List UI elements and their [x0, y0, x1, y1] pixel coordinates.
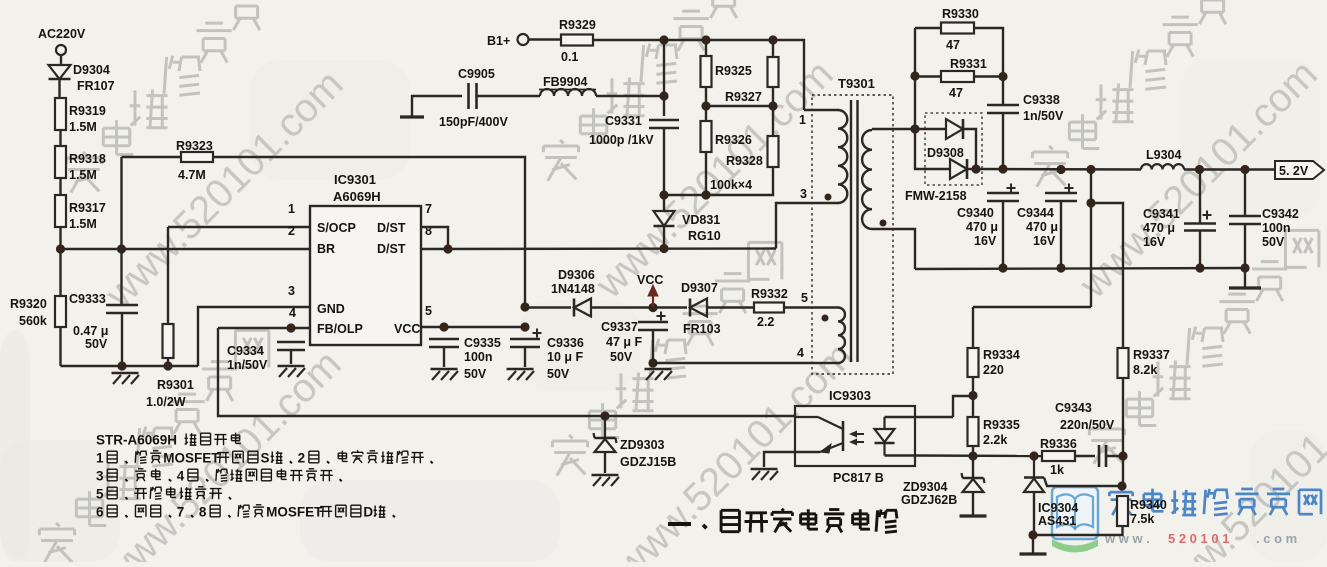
svg-text:16V: 16V	[1143, 235, 1166, 249]
svg-text:R9329: R9329	[559, 18, 596, 32]
svg-text:FR103: FR103	[683, 322, 721, 336]
wire	[1032, 526, 1123, 535]
watermark 4	[587, 52, 842, 307]
capacitor C9331	[649, 119, 679, 122]
node junction	[1117, 481, 1126, 490]
svg-text:8.2k: 8.2k	[1133, 363, 1157, 377]
wire	[972, 377, 974, 417]
wire	[1184, 168, 1275, 170]
node junction	[659, 190, 668, 199]
svg-text:BR: BR	[317, 242, 335, 256]
wire xfrm pin1	[804, 109, 839, 111]
svg-text:FB/OLP: FB/OLP	[317, 322, 363, 336]
svg-text:B1+: B1+	[487, 34, 510, 48]
capacitor C9342	[1229, 215, 1261, 218]
svg-text:VD831: VD831	[682, 213, 720, 227]
wire VCC feed	[525, 306, 571, 308]
wire	[59, 227, 61, 296]
site watermark logo	[1052, 487, 1098, 539]
svg-text:IC9304: IC9304	[1038, 501, 1078, 515]
wire GND pin3	[198, 307, 310, 366]
svg-text:C9334: C9334	[227, 344, 264, 358]
T9301 secondary winding	[862, 130, 872, 229]
wire	[914, 28, 916, 129]
capacitor C9336	[510, 338, 540, 341]
svg-text:1.0/2W: 1.0/2W	[146, 395, 186, 409]
diode D9307	[689, 299, 692, 317]
svg-text:R9331: R9331	[950, 57, 987, 71]
capacitor C9343	[1098, 445, 1101, 467]
wire	[764, 452, 795, 467]
svg-text:1.5M: 1.5M	[69, 168, 97, 182]
wire ref	[1044, 478, 1122, 487]
ground	[751, 468, 778, 471]
svg-text:C9331: C9331	[605, 114, 642, 128]
watermark 5	[1049, 146, 1053, 150]
svg-text:R9335: R9335	[983, 418, 1020, 432]
wire	[885, 454, 916, 456]
node junction	[1086, 165, 1095, 174]
wire D/ST pin7 stub	[421, 227, 448, 249]
wire	[707, 306, 754, 308]
node junction	[1195, 263, 1204, 272]
svg-text:w w w .: w w w .	[1104, 531, 1150, 546]
capacitor C9344	[1045, 192, 1077, 195]
IC U IC9301 A6069H	[310, 206, 421, 345]
svg-text:1000p /1kV: 1000p /1kV	[589, 133, 654, 147]
node junction	[998, 164, 1007, 173]
wire sec return rail	[915, 268, 1245, 269]
svg-text:R9301: R9301	[157, 378, 194, 392]
svg-text:4.7M: 4.7M	[178, 168, 206, 182]
svg-text:VCC: VCC	[394, 322, 420, 336]
svg-text:C9340: C9340	[957, 206, 994, 220]
svg-text:L9304: L9304	[1146, 148, 1181, 162]
output flag 5.2V	[1275, 161, 1324, 179]
svg-text:5: 5	[425, 304, 432, 318]
wire	[973, 306, 1091, 308]
svg-text:D/ST: D/ST	[377, 221, 406, 235]
watermark 10	[1145, 364, 1327, 567]
svg-text:AC220V: AC220V	[38, 27, 86, 41]
node junction	[163, 361, 172, 370]
node junction	[439, 322, 448, 331]
wire	[663, 40, 665, 116]
svg-text:2.2: 2.2	[757, 315, 774, 329]
svg-text:8: 8	[199, 504, 207, 519]
wire	[596, 95, 664, 97]
wire drain net	[421, 247, 776, 250]
node junction	[1056, 263, 1065, 272]
wire	[477, 95, 541, 97]
svg-text:R9326: R9326	[715, 133, 752, 147]
resistor R9318	[55, 146, 66, 178]
wire	[1244, 170, 1246, 217]
watermark 6	[1071, 52, 1326, 307]
ground	[278, 365, 305, 368]
wire	[1244, 268, 1246, 287]
svg-text:47 μ F: 47 μ F	[606, 335, 642, 349]
svg-text:R9330: R9330	[942, 7, 979, 21]
svg-text:ZD9303: ZD9303	[620, 438, 665, 452]
wire	[290, 350, 292, 364]
wire	[664, 167, 773, 195]
node junction	[1240, 165, 1249, 174]
site watermark text	[1120, 488, 1122, 490]
node VCC	[648, 303, 657, 312]
resistor R9334	[968, 348, 979, 377]
wire	[772, 87, 774, 136]
svg-text:6: 6	[96, 504, 104, 519]
node junction	[117, 244, 126, 253]
node junction	[520, 302, 529, 311]
capacitor C9337	[638, 321, 668, 324]
svg-text:C9338: C9338	[1023, 93, 1060, 107]
wire	[1075, 455, 1095, 457]
svg-text:PC817 B: PC817 B	[833, 471, 884, 485]
svg-text:IC9301: IC9301	[334, 172, 376, 187]
watermark 2	[97, 62, 352, 317]
svg-text:S: S	[260, 450, 269, 465]
svg-text:C9344: C9344	[1017, 206, 1054, 220]
svg-text:D: D	[363, 504, 373, 519]
wire BR net	[61, 248, 311, 250]
resistor R9325	[705, 40, 707, 56]
svg-text:R9340: R9340	[1130, 498, 1167, 512]
D9308 diode a	[962, 119, 965, 139]
capacitor C9341	[1184, 222, 1216, 225]
wire B1+ rail	[593, 40, 804, 110]
resistor R9337	[1118, 348, 1129, 378]
svg-text:IC9303: IC9303	[829, 388, 871, 403]
node junction	[998, 72, 1007, 81]
svg-text:470 μ: 470 μ	[1143, 221, 1175, 235]
svg-text:A6069H: A6069H	[333, 189, 381, 204]
svg-text:470 μ: 470 μ	[1026, 220, 1058, 234]
wire	[1091, 203, 1123, 348]
svg-text:R9327: R9327	[725, 90, 762, 104]
wire	[122, 156, 182, 158]
T9301 primary winding 1-3	[838, 110, 847, 203]
capacitor C9333	[106, 304, 138, 307]
watermark 1	[83, 152, 87, 156]
watermark 11	[1106, 423, 1110, 427]
svg-text:7.5k: 7.5k	[1130, 512, 1154, 526]
svg-text:150pF/400V: 150pF/400V	[439, 115, 508, 129]
wire	[974, 28, 1003, 105]
watermark 8	[569, 435, 573, 439]
resistor R9326	[701, 121, 712, 152]
wire	[663, 128, 665, 195]
wire startup net	[213, 157, 525, 307]
wire	[167, 227, 169, 324]
zener ZD9304	[963, 477, 984, 480]
svg-text:3: 3	[96, 468, 104, 483]
ground	[431, 368, 458, 371]
svg-text:GND: GND	[317, 302, 345, 316]
ground	[1229, 286, 1261, 289]
node junction	[1240, 263, 1249, 272]
resistor R9330	[915, 27, 941, 29]
phasing dot	[825, 194, 832, 201]
wire	[915, 75, 941, 77]
opto LED	[883, 417, 885, 429]
diode VD831	[654, 211, 675, 226]
node junction	[286, 323, 295, 332]
wire sec top	[872, 128, 915, 130]
wire	[963, 129, 976, 169]
svg-text:MOSFET: MOSFET	[163, 450, 220, 465]
wire	[524, 347, 526, 367]
terminal plate C9905	[400, 115, 424, 118]
wire	[705, 87, 707, 121]
wire	[1199, 170, 1201, 225]
resistor R9327	[772, 40, 774, 57]
wire	[1002, 113, 1004, 169]
svg-text:3: 3	[288, 284, 295, 298]
wire	[59, 327, 61, 366]
svg-text:16V: 16V	[1033, 234, 1056, 248]
svg-text:T9301: T9301	[838, 76, 875, 91]
wire output rail	[976, 168, 1141, 171]
svg-text:D9307: D9307	[681, 281, 718, 295]
svg-text:10 μ F: 10 μ F	[547, 350, 583, 364]
svg-text:D9306: D9306	[558, 268, 595, 282]
node junction	[659, 35, 668, 44]
node junction	[520, 322, 529, 331]
svg-text:C9905: C9905	[458, 67, 495, 81]
svg-text:50V: 50V	[85, 337, 108, 351]
svg-text:50V: 50V	[610, 350, 633, 364]
svg-text:FMW-2158: FMW-2158	[905, 189, 967, 203]
node junction	[1056, 165, 1065, 174]
svg-text:RG10: RG10	[688, 229, 721, 243]
wire	[60, 55, 62, 65]
wire	[652, 330, 654, 363]
dual diode D9308 FMW-2158	[925, 113, 982, 185]
svg-text:560k: 560k	[19, 314, 47, 328]
svg-text:AS431: AS431	[1038, 514, 1076, 528]
resistor R9319	[55, 98, 66, 130]
svg-text:220: 220	[983, 363, 1004, 377]
ground	[1020, 552, 1047, 555]
svg-text:1N4148: 1N4148	[551, 282, 595, 296]
wire	[1060, 201, 1062, 268]
svg-text:R9320: R9320	[10, 297, 47, 311]
ground	[592, 474, 619, 477]
node junction	[701, 101, 710, 110]
wire	[1033, 492, 1035, 535]
node junction	[1118, 451, 1127, 460]
svg-text:C9341: C9341	[1143, 207, 1180, 221]
node junction	[659, 244, 668, 253]
capacitor C9340	[987, 192, 1019, 195]
svg-text:FB9904: FB9904	[543, 75, 588, 89]
opto transistor	[842, 421, 845, 451]
wire VCC pin5	[421, 326, 525, 328]
resistor R9335	[968, 417, 979, 446]
wire sense	[1090, 170, 1092, 308]
wire	[872, 229, 915, 269]
node junction	[1086, 198, 1095, 207]
ground	[112, 372, 139, 375]
svg-text:16V: 16V	[974, 234, 997, 248]
ground	[960, 514, 987, 517]
svg-text:R9337: R9337	[1133, 348, 1170, 362]
svg-text:1n/50V: 1n/50V	[1023, 109, 1064, 123]
svg-text:VCC: VCC	[637, 273, 663, 287]
title sub switching power supply circuit	[668, 522, 691, 526]
svg-text:4: 4	[797, 346, 804, 360]
wire	[591, 306, 687, 308]
wire emitter	[795, 451, 820, 453]
wire	[412, 96, 462, 116]
svg-text:50V: 50V	[1262, 235, 1285, 249]
svg-text:C9336: C9336	[547, 336, 584, 350]
wire xfrm pin5	[784, 306, 839, 308]
svg-text:100n: 100n	[1262, 221, 1291, 235]
svg-text:R9328: R9328	[726, 154, 763, 168]
node junction	[768, 101, 777, 110]
svg-text:1k: 1k	[1050, 463, 1064, 477]
node junction	[968, 391, 977, 400]
wire	[1002, 201, 1004, 268]
watermark 9	[607, 334, 862, 567]
node junction	[659, 91, 668, 100]
resistor R9328	[768, 136, 779, 167]
svg-text:C9335: C9335	[464, 336, 501, 350]
watermark 7b	[95, 342, 350, 567]
resistor R9320	[55, 296, 66, 327]
svg-text:R9317: R9317	[69, 201, 106, 215]
scan background texture	[0, 440, 120, 562]
svg-text:220n/50V: 220n/50V	[1060, 418, 1115, 432]
svg-text:470 μ: 470 μ	[966, 220, 998, 234]
wire drain to xfrm	[776, 203, 839, 249]
VCC arrow symbol	[652, 294, 654, 307]
zener ZD9303	[604, 416, 606, 437]
wire aux return	[653, 362, 839, 364]
watermark 3	[560, 140, 564, 144]
node junction	[1195, 165, 1204, 174]
wire	[972, 492, 974, 515]
svg-text:R9318: R9318	[69, 152, 106, 166]
svg-text:C9343: C9343	[1055, 401, 1092, 415]
wire	[915, 129, 950, 169]
resistor R9301	[163, 324, 174, 358]
svg-text:GDZJ62B: GDZJ62B	[901, 493, 957, 507]
svg-text:R9319: R9319	[69, 104, 106, 118]
svg-text:7: 7	[425, 202, 432, 216]
svg-text:5: 5	[96, 486, 104, 501]
svg-text:1.5M: 1.5M	[69, 120, 97, 134]
T9301 core	[850, 100, 852, 362]
wire	[1032, 535, 1034, 553]
svg-text:100k×4: 100k×4	[710, 178, 752, 192]
wire S/OCP pin1	[168, 226, 310, 228]
resistor R9340	[1117, 496, 1128, 526]
svg-text:R9334: R9334	[983, 348, 1020, 362]
wire	[604, 452, 606, 473]
svg-text:1: 1	[799, 113, 806, 127]
node junction	[768, 35, 777, 44]
svg-text:R9336: R9336	[1040, 437, 1077, 451]
wire	[885, 416, 916, 418]
svg-text:D/ST: D/ST	[377, 242, 406, 256]
resistor R9317	[55, 195, 66, 227]
wire	[120, 157, 122, 305]
node junction	[971, 164, 980, 173]
svg-text:D9308: D9308	[927, 146, 964, 160]
svg-text:2: 2	[288, 224, 295, 238]
wire opto feed	[953, 396, 973, 417]
node junction	[1029, 451, 1038, 460]
node junction	[910, 71, 919, 80]
svg-text:5 2 0 1 0 1: 5 2 0 1 0 1	[1168, 531, 1229, 546]
T9301 aux winding 5-4	[838, 308, 845, 364]
svg-text:. c o m: . c o m	[1256, 531, 1297, 546]
svg-text:47: 47	[949, 86, 963, 100]
diode D9304	[49, 65, 71, 79]
watermark 7	[56, 523, 60, 527]
capacitor C9334	[277, 341, 305, 344]
svg-text:D9304: D9304	[73, 63, 110, 77]
wire feedback net	[218, 328, 795, 416]
wire	[706, 105, 773, 107]
wire	[705, 152, 707, 195]
wire	[972, 446, 974, 478]
wire	[58, 79, 60, 98]
D9308 diode b	[966, 159, 969, 179]
svg-text:C9337: C9337	[601, 320, 638, 334]
node junction	[648, 358, 657, 367]
wire	[529, 38, 561, 40]
svg-text:R9325: R9325	[715, 64, 752, 78]
wire	[915, 128, 946, 130]
svg-text:1n/50V: 1n/50V	[227, 358, 268, 372]
wire	[915, 416, 953, 418]
capacitor C9338	[987, 104, 1019, 107]
svg-text:50V: 50V	[464, 367, 487, 381]
ground	[645, 368, 672, 371]
svg-text:0.47 μ: 0.47 μ	[73, 324, 108, 338]
svg-text:C9333: C9333	[69, 292, 106, 306]
feedback rail	[915, 454, 1042, 457]
svg-text:5. 2V: 5. 2V	[1279, 164, 1309, 178]
svg-text:1.5M: 1.5M	[69, 217, 97, 231]
wire	[1122, 378, 1124, 486]
svg-text:4: 4	[177, 468, 185, 483]
diode D9306	[573, 299, 576, 317]
svg-text:MOSFET: MOSFET	[266, 504, 323, 519]
node junction	[56, 244, 65, 253]
wire	[59, 178, 61, 195]
svg-text:C9342: C9342	[1262, 207, 1299, 221]
svg-text:R9323: R9323	[176, 139, 213, 153]
node junction	[701, 190, 710, 199]
svg-text:0.1: 0.1	[561, 50, 578, 64]
node junction	[998, 263, 1007, 272]
phasing dot	[880, 220, 887, 227]
svg-text:ZD9304: ZD9304	[903, 480, 948, 494]
opto light arrows	[852, 433, 864, 435]
wire FB pin4	[218, 327, 310, 329]
svg-text:STR-A6069H: STR-A6069H	[96, 432, 177, 447]
wire	[663, 195, 665, 211]
wire	[59, 130, 61, 146]
wire	[972, 307, 974, 348]
svg-text:47: 47	[946, 38, 960, 52]
